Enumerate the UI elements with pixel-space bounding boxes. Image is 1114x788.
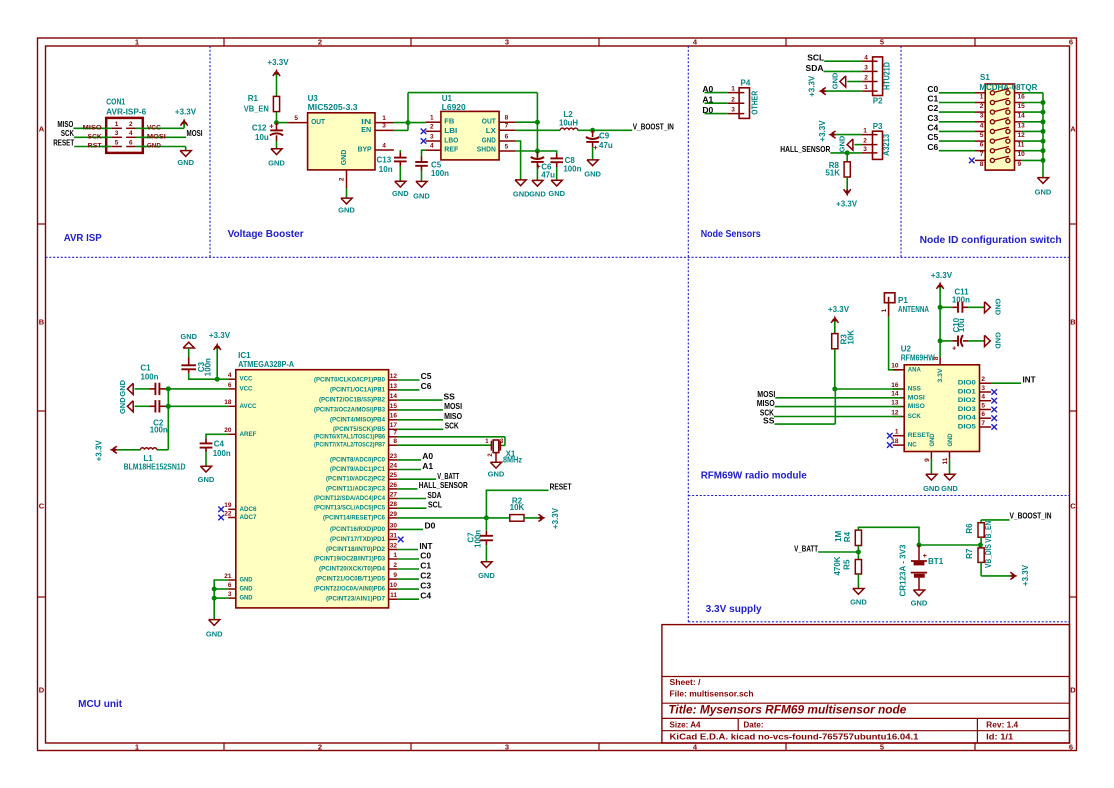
label SCL [807, 53, 824, 63]
svg-text:DIO2: DIO2 [958, 397, 976, 404]
svg-text:5: 5 [980, 132, 984, 139]
svg-text:3: 3 [731, 107, 735, 114]
battery BT1 CR123A - 3V3 [899, 544, 944, 597]
svg-text:3: 3 [980, 113, 984, 120]
wire U1 OUT to node [516, 121, 538, 123]
svg-text:A1: A1 [422, 461, 433, 471]
no-connect ADC7 [218, 515, 224, 521]
label INT [1023, 374, 1037, 384]
wire C1 to S1 [939, 102, 975, 104]
svg-text:INT: INT [419, 541, 433, 551]
svg-text:+3.3V: +3.3V [828, 305, 850, 314]
wire battery junction to R6/R7 [919, 544, 980, 546]
svg-text:13: 13 [1018, 122, 1026, 129]
svg-text:C13: C13 [377, 155, 392, 164]
svg-text:GND: GND [993, 332, 1002, 349]
svg-text:10uH: 10uH [559, 119, 578, 128]
svg-text:GND: GND [240, 577, 253, 584]
wire PD6 to C3 label [397, 580, 431, 590]
wire C4 to S1 [939, 130, 975, 132]
svg-text:BYP: BYP [358, 147, 372, 154]
svg-text:V_BOOST_IN: V_BOOST_IN [633, 121, 674, 131]
ground below U1 GND [513, 180, 530, 199]
wire PB4 to MISO label [397, 411, 462, 421]
connector CON1 AVR-ISP-6 [83, 97, 167, 153]
wire PD0 to D0 label [397, 521, 435, 531]
svg-text:Size: A4: Size: A4 [670, 721, 702, 730]
svg-text:RESET: RESET [908, 432, 930, 439]
svg-text:GND: GND [118, 379, 127, 396]
section divider Voltage Booster / Node Sensors [687, 46, 689, 622]
svg-text:6: 6 [981, 411, 985, 418]
svg-text:+3.3V: +3.3V [808, 75, 817, 97]
svg-text:100n: 100n [141, 372, 159, 381]
junction at R1/C12 [274, 120, 279, 125]
pin stubs U2 right [980, 376, 992, 427]
junction at C9 [590, 128, 595, 133]
svg-text:+: + [952, 343, 957, 352]
svg-text:V_BATT: V_BATT [794, 543, 819, 553]
svg-text:470K: 470K [833, 556, 842, 575]
capacitor C6 47u [531, 151, 555, 180]
svg-text:SCL: SCL [428, 500, 442, 510]
svg-text:100n: 100n [473, 530, 482, 548]
svg-text:OUT: OUT [311, 119, 326, 126]
svg-text:2: 2 [318, 743, 322, 752]
wire PC2 to V_BATT label [397, 471, 459, 481]
svg-text:+3.3V: +3.3V [209, 331, 231, 340]
wire PC4 to SDA label [397, 490, 441, 500]
junction C1/VCC6 [166, 386, 171, 391]
svg-text:10: 10 [1018, 151, 1026, 158]
svg-text:(PCINT5/SCK)PB5: (PCINT5/SCK)PB5 [333, 426, 386, 433]
connector P4 OTHER [728, 79, 760, 119]
svg-text:2: 2 [864, 75, 868, 82]
wire R4 top to battery top [858, 527, 919, 545]
wire to VCC pin 4 [217, 378, 228, 380]
svg-text:D0: D0 [425, 521, 436, 531]
wire U1 GND to ground [516, 141, 521, 180]
svg-text:AVCC: AVCC [240, 403, 257, 410]
svg-text:2: 2 [393, 562, 397, 569]
svg-text:GND: GND [993, 298, 1002, 315]
svg-text:19: 19 [224, 502, 232, 509]
svg-text:U3: U3 [308, 94, 319, 103]
svg-text:5: 5 [981, 402, 985, 409]
svg-text:11: 11 [942, 457, 949, 464]
wire V_BATT to R4/R5 [818, 546, 858, 560]
resistor R2 10K [510, 497, 544, 521]
svg-text:3.3V: 3.3V [937, 368, 944, 383]
svg-text:D: D [39, 686, 45, 695]
wire A0 to P4 [705, 92, 728, 94]
ground right of C10 [985, 332, 1003, 349]
label C2 [927, 103, 938, 113]
no-connect PD1 [398, 537, 404, 543]
ground at P2 pin 2 [830, 72, 862, 89]
svg-text:P1: P1 [898, 296, 908, 305]
pin 5 stub U3 OUT [288, 115, 307, 123]
svg-text:(PCINT20/XCK/T0)PD4: (PCINT20/XCK/T0)PD4 [319, 566, 386, 573]
svg-text:6: 6 [228, 382, 232, 389]
svg-text:VCC: VCC [240, 376, 253, 383]
capacitor C10 10u [940, 317, 984, 352]
no-connect DIO4 [991, 415, 997, 421]
svg-text:LBO: LBO [444, 138, 459, 145]
wire PB0 to C5 label [397, 371, 431, 381]
ground below C4 [198, 466, 215, 484]
svg-text:(PCINT19/OC2B/INT1)PD3: (PCINT19/OC2B/INT1)PD3 [314, 556, 386, 563]
svg-text:C3: C3 [420, 580, 431, 590]
capacitor C8 100n [550, 156, 581, 180]
label C6 [927, 142, 938, 152]
svg-text:10u: 10u [255, 133, 269, 142]
svg-text:+3.3V: +3.3V [551, 507, 560, 529]
svg-text:(PCINT22/OC0A/AIN0)PD6: (PCINT22/OC0A/AIN0)PD6 [314, 586, 386, 593]
svg-text:C12: C12 [252, 124, 267, 133]
svg-text:1: 1 [485, 439, 489, 445]
svg-text:3: 3 [115, 130, 119, 137]
ground at P3 pin 2 [838, 135, 862, 152]
power +3.3V at CON1 [175, 108, 197, 129]
power +3.3V above U2 [931, 271, 953, 358]
wire +3.3V rail to L1 [116, 389, 169, 450]
svg-text:Node ID configuration switch: Node ID configuration switch [920, 235, 1062, 246]
svg-text:18: 18 [891, 438, 899, 445]
label RESET [53, 137, 75, 147]
ground below C13 [392, 181, 409, 198]
svg-text:C4: C4 [214, 440, 225, 449]
svg-text:SCK: SCK [908, 413, 921, 420]
pin 9 stub U2 GND [924, 452, 931, 462]
label C1 [927, 94, 938, 104]
svg-text:4: 4 [981, 394, 985, 401]
label RESET [550, 481, 573, 491]
svg-text:6: 6 [1069, 38, 1073, 47]
section title RFM69W radio module [701, 471, 807, 482]
pin 1 stub U1 FB [426, 114, 441, 122]
radio module U2 RFM69HW [901, 345, 980, 452]
svg-text:GND: GND [341, 150, 348, 166]
pin 7 stub U1 LX [499, 123, 516, 131]
wire V_BOOST_IN to R6 [981, 520, 1009, 523]
wire SCL to P2 [824, 60, 862, 62]
svg-text:(PCINT14/RESET)PC6: (PCINT14/RESET)PC6 [323, 514, 386, 521]
svg-text:(PCINT23/AIN1)PD7: (PCINT23/AIN1)PD7 [326, 596, 386, 603]
svg-text:7: 7 [981, 420, 985, 427]
wire PC0 to A0 label [397, 451, 433, 461]
label A0 [702, 84, 713, 94]
wire PB3 to MOSI label [397, 401, 462, 411]
svg-text:4: 4 [382, 142, 386, 149]
svg-text:IN: IN [361, 119, 371, 126]
svg-text:3: 3 [981, 385, 985, 392]
svg-text:C4: C4 [420, 591, 431, 601]
svg-text:(PCINT6/XTAL1/TOSC1)PB6: (PCINT6/XTAL1/TOSC1)PB6 [314, 433, 385, 440]
wire P1 to U2 ANA [889, 317, 902, 370]
svg-text:GND: GND [488, 470, 505, 479]
svg-text:8: 8 [980, 161, 984, 168]
label D0 [702, 105, 713, 115]
title block title text [668, 704, 907, 716]
svg-text:R1: R1 [248, 94, 259, 103]
svg-text:16: 16 [891, 382, 899, 389]
pin 2 stub U3 GND [338, 170, 346, 188]
power +3.3V right of R7 [1010, 564, 1030, 586]
svg-text:MISO: MISO [908, 403, 925, 410]
svg-text:GND: GND [1035, 188, 1052, 197]
regulator U3 MIC5205-3.3 [308, 94, 375, 170]
svg-text:C4: C4 [927, 123, 938, 133]
svg-text:11: 11 [1018, 142, 1025, 149]
svg-text:SS: SS [763, 415, 775, 425]
svg-text:Sheet: /: Sheet: / [670, 678, 702, 687]
svg-text:B: B [1070, 318, 1076, 327]
svg-text:LX: LX [486, 128, 496, 135]
wire PD7 to C4 label [397, 591, 431, 601]
pin stubs IC1 left [224, 372, 236, 598]
svg-text:10: 10 [390, 582, 398, 589]
converter U1 L6920 [441, 94, 499, 160]
svg-text:SDA: SDA [427, 490, 441, 500]
svg-text:R5: R5 [843, 559, 852, 570]
svg-text:(PCINT18/INT0)PD2: (PCINT18/INT0)PD2 [326, 546, 386, 553]
label SDA [806, 63, 824, 73]
svg-text:100n: 100n [203, 358, 212, 376]
junction reset node [484, 515, 489, 520]
svg-text:2: 2 [338, 177, 345, 181]
svg-text:SDA: SDA [806, 63, 824, 73]
wire PC3 to HALL_SENSOR label [397, 480, 467, 490]
svg-text:BT1: BT1 [928, 557, 944, 566]
wire MISO to CON1 [73, 127, 106, 129]
svg-text:8: 8 [393, 438, 397, 445]
svg-text:1: 1 [980, 93, 984, 100]
connector P3 A3213 [861, 122, 891, 159]
junctions on S1 ground bus [1041, 100, 1046, 163]
svg-text:4: 4 [228, 372, 232, 379]
ground below C9 [584, 160, 601, 179]
pin 2 stub U1 LBI no-connect [421, 124, 441, 135]
svg-text:10K: 10K [846, 330, 855, 345]
svg-text:Voltage Booster: Voltage Booster [228, 229, 304, 240]
inductor L1 BLM18HE152SN1D [124, 448, 186, 472]
svg-text:28: 28 [390, 501, 398, 508]
svg-text:100n: 100n [150, 425, 168, 434]
svg-text:MISO: MISO [444, 411, 462, 421]
svg-text:V_BOOST_IN: V_BOOST_IN [1010, 511, 1052, 521]
svg-text:5: 5 [880, 38, 884, 47]
wire PD5 to C2 label [397, 570, 431, 580]
svg-text:GND: GND [206, 630, 223, 639]
power +3.3V at P3 pin 1 [818, 120, 861, 142]
label SS at U2 [763, 415, 775, 425]
pin 8 stub U2 3.3V [933, 356, 940, 365]
pin 5 stub U1 SHDN [499, 143, 516, 151]
svg-text:ADC6: ADC6 [240, 506, 257, 513]
svg-text:P2: P2 [873, 96, 883, 105]
svg-text:+: + [593, 143, 598, 152]
wire U3 IN to U1 FB with EN riser [394, 93, 538, 158]
svg-text:CR123A - 3V3: CR123A - 3V3 [899, 544, 908, 597]
svg-text:+3.3V: +3.3V [1021, 564, 1030, 586]
capacitor C2 100n [135, 400, 229, 434]
ground below R5 [850, 589, 867, 607]
svg-text:+3.3V: +3.3V [94, 440, 103, 462]
section title MCU unit [78, 699, 123, 710]
ground at CON1 [177, 147, 194, 167]
label SCK [61, 128, 75, 138]
svg-text:MOSI: MOSI [444, 401, 462, 411]
title block kicad text [670, 733, 920, 742]
ground below C12 [268, 149, 285, 168]
svg-text:18: 18 [224, 399, 232, 406]
ground below U2 pin 9 [923, 459, 940, 493]
pin stubs IC1 right [389, 373, 398, 599]
no-connect U2 RESET [887, 433, 893, 439]
svg-text:3: 3 [430, 133, 434, 140]
svg-text:INT: INT [1023, 374, 1037, 384]
ground left of C2 [118, 397, 133, 414]
svg-text:NSS: NSS [908, 386, 922, 393]
power +3.3V above IC1 [209, 331, 231, 379]
svg-text:OUT: OUT [482, 119, 497, 126]
svg-text:SHDN: SHDN [477, 147, 496, 154]
svg-text:A0: A0 [422, 451, 433, 461]
svg-text:Date:: Date: [744, 721, 764, 730]
wire U1 REF to C5 [422, 150, 426, 162]
svg-text:RST: RST [88, 144, 102, 150]
wire PD2 to INT label [397, 541, 433, 551]
svg-text:C2: C2 [420, 570, 431, 580]
resistor R1 VB_EN [244, 94, 280, 113]
svg-text:7: 7 [505, 123, 509, 130]
svg-text:2: 2 [129, 121, 133, 128]
svg-text:4: 4 [129, 130, 133, 137]
svg-text:A3213: A3213 [882, 133, 891, 156]
svg-text:12: 12 [1018, 132, 1026, 139]
wire PC1 to A1 label [397, 461, 433, 471]
svg-text:(PCINT17/TXD)PD1: (PCINT17/TXD)PD1 [330, 536, 386, 543]
svg-text:AVR-ISP-6: AVR-ISP-6 [106, 107, 147, 116]
svg-text:8: 8 [505, 114, 509, 121]
svg-text:DIO1: DIO1 [958, 389, 976, 396]
label V_BOOST_IN at R6 [1010, 511, 1052, 521]
wire AREF to C4 [206, 434, 228, 443]
svg-text:VCC: VCC [240, 385, 253, 392]
svg-text:2: 2 [863, 138, 867, 145]
svg-text:4: 4 [980, 122, 984, 129]
svg-text:GND: GND [338, 206, 355, 215]
junction U3 IN node [406, 120, 411, 125]
svg-text:(PCINT7/XTAL2/TOSC2)PB7: (PCINT7/XTAL2/TOSC2)PB7 [314, 442, 385, 449]
svg-text:GND: GND [911, 599, 928, 608]
svg-text:47u: 47u [541, 171, 555, 180]
svg-text:CON1: CON1 [106, 97, 125, 106]
title block file text [670, 689, 754, 698]
svg-text:SS: SS [444, 391, 456, 401]
svg-text:U2: U2 [901, 345, 912, 354]
wire L2 to V_BOOST_IN [578, 129, 633, 131]
svg-text:2: 2 [980, 103, 984, 110]
section divider AVR ISP / Voltage Booster [209, 46, 211, 257]
svg-text:L1: L1 [143, 454, 153, 463]
ground below BT1 [911, 590, 928, 608]
svg-text:13: 13 [891, 400, 899, 407]
svg-text:GND: GND [198, 475, 215, 484]
junction GND pin 3 [212, 596, 217, 601]
wire D0 to P4 [705, 113, 728, 115]
svg-text:10K: 10K [510, 503, 525, 512]
svg-text:GND: GND [923, 484, 940, 493]
svg-text:24: 24 [390, 462, 398, 469]
label MISO [57, 119, 73, 129]
pin 3 stub U1 LBO no-connect [421, 133, 441, 144]
svg-text:31: 31 [390, 532, 398, 539]
svg-text:11: 11 [390, 592, 397, 599]
svg-text:12: 12 [390, 373, 398, 380]
capacitor C7 100n [467, 518, 493, 562]
svg-text:16: 16 [1018, 93, 1026, 100]
label C0 [927, 84, 938, 94]
power +3.3V right of R2 [538, 507, 560, 529]
wire MOSI to U2 [775, 397, 901, 399]
svg-text:C1: C1 [140, 364, 151, 373]
resistor R8 51K [825, 153, 850, 190]
capacitor C12 10u [252, 122, 283, 149]
svg-text:VB_EN: VB_EN [984, 521, 993, 543]
svg-text:DIO4: DIO4 [958, 415, 976, 422]
wire CON1 GND [144, 146, 186, 148]
label MOSI at U2 [757, 389, 775, 399]
svg-text:3: 3 [505, 38, 509, 47]
svg-text:+3.3V: +3.3V [931, 271, 953, 280]
svg-text:51K: 51K [825, 168, 840, 177]
capacitor C9 47u [586, 130, 613, 160]
resistor R3 10K [832, 330, 856, 389]
wire HALL_SENSOR to P3 [830, 152, 861, 154]
svg-text:7: 7 [980, 151, 984, 158]
ground below C7 [478, 562, 495, 580]
pin 4 stub U1 REF [426, 143, 441, 151]
wire PC5 to SCL label [397, 500, 442, 510]
svg-text:BLM18HE152SN1D: BLM18HE152SN1D [124, 463, 186, 472]
svg-text:3.3V supply: 3.3V supply [706, 604, 762, 615]
capacitor C4 100n [200, 440, 231, 467]
svg-text:4: 4 [430, 143, 434, 150]
no-connect ADC6 [218, 507, 224, 513]
svg-text:C9: C9 [599, 132, 610, 141]
svg-text:5: 5 [880, 743, 884, 752]
svg-text:DIO5: DIO5 [958, 424, 976, 431]
svg-text:DIO3: DIO3 [958, 406, 976, 413]
wire RESET to CON1 [74, 146, 106, 148]
wire PD3 to C0 label [397, 550, 431, 560]
junction GND pin 5 [212, 587, 217, 592]
svg-text:(PCINT21/OC0B/T1)PD5: (PCINT21/OC0B/T1)PD5 [316, 576, 386, 583]
no-connect U2 NC [887, 442, 893, 448]
svg-text:14: 14 [390, 393, 398, 400]
svg-text:C6: C6 [927, 142, 938, 152]
svg-text:6: 6 [980, 142, 984, 149]
svg-text:IC1: IC1 [238, 351, 251, 360]
svg-text:5: 5 [115, 139, 119, 146]
svg-text:6: 6 [129, 139, 133, 146]
svg-text:NC: NC [908, 442, 917, 449]
resistor R6 VB_EN [965, 521, 993, 548]
wire U1 LX to L2 [516, 129, 560, 131]
svg-text:1M: 1M [834, 530, 843, 541]
